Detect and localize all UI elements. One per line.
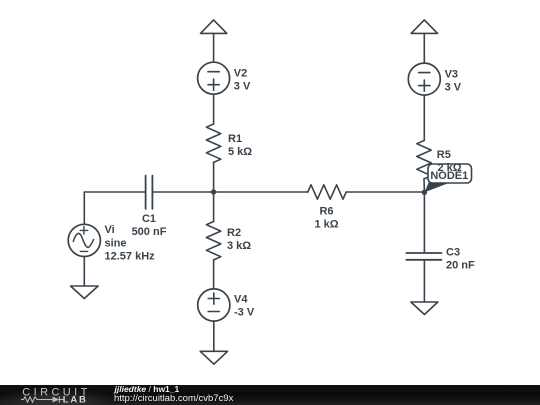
voltage source V4 — [198, 289, 230, 321]
node (right junction) — [422, 190, 427, 195]
svg-text:20 nF: 20 nF — [446, 260, 475, 272]
CircuitLab logo — [0, 385, 110, 405]
wire (node down to C3) — [423, 192, 425, 252]
svg-text:LAB: LAB — [63, 395, 88, 405]
voltage source V2 — [198, 62, 230, 94]
wire — [423, 260, 425, 302]
svg-text:R5: R5 — [437, 149, 451, 161]
wire — [152, 191, 213, 193]
svg-text:3 V: 3 V — [234, 81, 251, 93]
wire — [213, 94, 215, 124]
VCC arrow right (top of V3 branch) — [411, 20, 438, 34]
resistor R5 — [417, 141, 431, 179]
svg-text:Vi: Vi — [105, 224, 115, 236]
wire — [423, 33, 425, 63]
svg-text:3 V: 3 V — [445, 82, 462, 94]
svg-text:-3 V: -3 V — [234, 307, 255, 319]
svg-text:R2: R2 — [227, 227, 241, 239]
wire — [213, 260, 215, 289]
footer credits — [115, 385, 180, 393]
wire — [213, 33, 215, 62]
svg-text:V3: V3 — [445, 69, 458, 81]
resistor R1 — [206, 124, 220, 162]
voltage source Vi (sine) — [68, 224, 100, 256]
wire (Vi top to main node row) — [84, 192, 145, 224]
footer bar — [0, 385, 540, 405]
capacitor C3 — [406, 252, 441, 254]
svg-text:NODE1: NODE1 — [430, 170, 468, 182]
label R6 — [314, 206, 338, 231]
wire — [423, 179, 425, 192]
svg-text:5 kΩ: 5 kΩ — [228, 146, 252, 158]
svg-text:C3: C3 — [446, 247, 460, 259]
node flag pointer — [425, 183, 450, 193]
svg-text:C1: C1 — [142, 213, 156, 225]
capacitor C1 — [145, 176, 147, 209]
label R1 — [228, 133, 252, 158]
ground (below C3) — [411, 302, 438, 315]
svg-text:12.57 kHz: 12.57 kHz — [105, 250, 156, 262]
wire — [213, 162, 215, 221]
svg-text:sine: sine — [105, 237, 127, 249]
node flag NODE1 — [428, 164, 472, 183]
svg-text:V4: V4 — [234, 294, 248, 306]
wire — [83, 257, 85, 287]
wire — [423, 95, 425, 140]
ground (below V4) — [200, 351, 227, 364]
svg-text:R1: R1 — [228, 133, 242, 145]
svg-text:V2: V2 — [234, 68, 247, 80]
VCC arrow left (top of V2 branch) — [201, 20, 227, 34]
ground (below Vi) — [71, 286, 99, 299]
label V2 — [234, 68, 251, 93]
svg-text:1 kΩ: 1 kΩ — [314, 219, 338, 231]
wire — [346, 191, 424, 193]
label C1 — [132, 213, 167, 238]
voltage source V3 — [408, 63, 440, 95]
wire (node to R6) — [214, 191, 308, 193]
svg-text:500 nF: 500 nF — [132, 226, 167, 238]
node (main left junction) — [211, 189, 216, 194]
resistor R6 — [308, 185, 346, 199]
label V3 — [445, 69, 462, 94]
label C3 — [446, 247, 475, 272]
svg-text:R6: R6 — [319, 206, 333, 218]
svg-text:3 kΩ: 3 kΩ — [227, 240, 251, 252]
label R2 — [227, 227, 251, 252]
resistor R2 — [206, 222, 220, 260]
label V4 — [234, 294, 255, 319]
wire — [213, 321, 215, 351]
label Vi — [105, 224, 156, 262]
